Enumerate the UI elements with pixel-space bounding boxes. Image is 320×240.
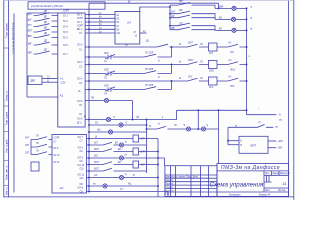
row E bus dot [88, 138, 90, 140]
svg-text:АО 1: АО 1 [77, 14, 83, 17]
ORT left feed vertical [227, 127, 229, 144]
drop vertical to lamp web [197, 110, 199, 129]
rung 1 jog link [171, 47, 173, 57]
svg-text:ОО 4: ОО 4 [77, 79, 83, 81]
svg-text:ЅУ 1: ЅУ 1 [63, 15, 69, 17]
A3 output stub [140, 32, 147, 34]
rung 3 lower wire [85, 87, 171, 92]
rung 1 junction dots [88, 46, 90, 48]
contact SQ4 [34, 29, 58, 32]
A1 stub row 2 to A3 [85, 17, 115, 19]
lamp wire HL2 [215, 18, 247, 20]
svg-text:ЅУ 5: ЅУ 5 [63, 37, 69, 39]
row G wire [87, 149, 159, 152]
wire DVP pin 12 [42, 77, 58, 79]
lamp HL4 [104, 98, 108, 102]
svg-text:ВПГ: ВПГ [28, 31, 33, 33]
auxiliary box ZV [31, 162, 39, 171]
svg-text:А1: А1 [59, 94, 64, 98]
row M bus dot [88, 191, 90, 193]
A1 stub row 3 to A3 [85, 21, 115, 23]
lamp HL5 [106, 117, 110, 121]
rung 3 upper wire [85, 78, 246, 81]
svg-text:Ут: Ут [158, 77, 160, 79]
row K lamp [119, 175, 123, 179]
rung 3 relay coil K3 [209, 77, 218, 85]
svg-text:ОО 2: ОО 2 [77, 45, 83, 47]
row F wire [87, 142, 147, 145]
svg-text:ЗЗТ: ЗЗТ [25, 152, 30, 154]
branch contact wire 5 [170, 27, 215, 30]
svg-text:Ш: Ш [95, 136, 97, 138]
row I bus dot [88, 164, 90, 166]
svg-text:ЗУП: ЗУП [141, 152, 146, 154]
lamp HL8 [201, 127, 205, 131]
A1 stub row 6 to A3 [85, 32, 115, 34]
contact SQ5 [34, 35, 58, 38]
svg-text:кт: кт [158, 123, 160, 125]
svg-text:ОО 3: ОО 3 [77, 62, 83, 64]
row L lamp [103, 184, 107, 188]
svg-text:Копировал: Копировал [229, 194, 241, 196]
top horizontal bus [89, 2, 219, 4]
svg-text:ЗУТ: ЗУТ [141, 165, 146, 167]
svg-text:ЗЮТ: ЗЮТ [94, 149, 100, 151]
pilot branch bus vertical [169, 5, 171, 30]
svg-text:ЅУ 6: ЅУ 6 [63, 45, 69, 47]
svg-text:СОРТ: СОРТ [77, 26, 84, 28]
svg-text:НВГ: НВГ [28, 53, 33, 55]
drop vertical bottom right [167, 192, 169, 197]
A2 input contact row 1 [31, 137, 52, 140]
svg-text:НЦ: НЦ [128, 183, 132, 185]
row I relay coil [133, 161, 139, 168]
svg-text:ЗЮС: ЗЮС [209, 71, 215, 73]
svg-text:ДП: ДП [44, 33, 48, 35]
svg-text:Масса: Масса [273, 173, 280, 175]
row H wire [87, 157, 165, 159]
controller block A2 [52, 135, 87, 194]
lamp HL7 [186, 127, 190, 131]
lamp HL6 [119, 123, 123, 127]
junction dots on bus at A3 stub rows [88, 14, 90, 16]
title block left grid verticals [171, 166, 209, 197]
junction dots on pilot branch bus [169, 6, 171, 8]
svg-text:Н.контр.: Н.контр. [165, 190, 174, 192]
row G relay coil [133, 148, 139, 155]
branch contact wire 1 [170, 3, 215, 9]
lamp row D wire [89, 131, 147, 133]
svg-text:УП ЗОР: УП ЗОР [145, 52, 154, 54]
svg-text:Справ. №: Справ. № [6, 90, 9, 101]
input contact group enclosure box [27, 13, 58, 97]
svg-text:ЅУ 7: ЅУ 7 [63, 54, 69, 56]
svg-text:Лит.: Лит. [265, 173, 270, 175]
A3 top feed wire [140, 7, 170, 12]
A2 input contact row 3 [31, 152, 52, 155]
svg-text:Ы: Ы [179, 44, 181, 46]
rung 2 relay coil K2 [209, 61, 218, 69]
branch contact wire 4 [170, 23, 215, 30]
svg-text:ЅУ 5: ЅУ 5 [63, 32, 69, 34]
svg-text:ЅУ 9: ЅУ 9 [54, 148, 60, 150]
svg-text:А2: А2 [59, 186, 64, 190]
sheet frame right border [289, 1, 294, 200]
svg-text:Листов: Листов [278, 190, 286, 192]
sheet frame top border [4, 0, 294, 2]
ORT right pin 2 [268, 147, 276, 149]
right vertical lamp bus [246, 8, 248, 114]
row M wire [87, 191, 169, 193]
svg-text:ЅУ 4: ЅУ 4 [63, 26, 69, 28]
rung 1 relay coil K1 [209, 43, 218, 51]
svg-text:Лист: Лист [265, 190, 270, 192]
sheet frame left margin lines [4, 1, 9, 198]
contact SQ3 [34, 24, 58, 27]
collector step from row B [176, 110, 178, 119]
A1 stub row 5 to A3 [85, 28, 115, 30]
title block right section [217, 163, 289, 196]
svg-text:к устройству ЗМ ЩУ(-)УВ конт.: к устройству ЗМ ЩУ(-)УВ конт. [12, 22, 15, 54]
svg-text:Перв. примен.: Перв. примен. [7, 22, 9, 37]
rung 3 jog link [171, 81, 173, 90]
A2 input contact row 2 [31, 144, 52, 147]
top bus drop to lamp row [218, 3, 220, 8]
signal lamp HL2 [231, 17, 235, 21]
svg-text:ЅЧТ: ЅЧТ [25, 137, 30, 139]
svg-text:ЅУ 3: ЅУ 3 [77, 22, 83, 24]
contact SQ7 [34, 51, 58, 54]
svg-text:ДП: ДП [44, 11, 48, 13]
svg-text:ВО 1: ВО 1 [77, 29, 83, 31]
collector wire to right bus [177, 109, 247, 111]
wire DVP pin 11 [42, 81, 58, 83]
margin divider ticks [4, 48, 9, 186]
collector vertical V1 [146, 120, 148, 174]
svg-text:ОО 7: ОО 7 [78, 137, 84, 139]
svg-text:ОО 5: ОО 5 [77, 101, 83, 103]
rung 1 lower wire [85, 54, 171, 59]
svg-text:Схема управления: Схема управления [210, 182, 264, 189]
svg-text:А3: А3 [126, 21, 131, 25]
ORT right pin 1 [268, 140, 276, 142]
svg-text:СОРТ: СОРТ [54, 138, 61, 140]
A2 input feed vertical [30, 140, 32, 155]
svg-text:Изм Лист № докум. Подп. Дата: Изм Лист № докум. Подп. Дата [165, 175, 198, 178]
svg-text:ОО 9: ОО 9 [78, 158, 84, 160]
svg-text:СОРТ: СОРТ [77, 18, 84, 20]
svg-text:Провер.: Провер. [165, 183, 174, 185]
row E relay coil [133, 135, 139, 142]
rung 2 jog link [171, 65, 173, 74]
svg-text:ЗУС: ЗУС [188, 76, 193, 78]
svg-text:Масштаб: Масштаб [280, 173, 290, 175]
svg-text:Т.контр.: Т.контр. [165, 187, 174, 189]
svg-text:ОО В: ОО В [78, 188, 84, 190]
row F bus dot [88, 144, 90, 146]
svg-text:Ут: Ут [158, 60, 160, 62]
branch contact wire 2 [170, 11, 215, 19]
svg-text:ЗОР: ЗОР [104, 53, 109, 55]
svg-text:ДП: ДП [44, 41, 48, 43]
row L wire [87, 185, 159, 187]
title block designation cell divider [217, 170, 289, 172]
svg-text:ЗЗТ: ЗЗТ [25, 145, 30, 147]
row K wire [87, 177, 159, 179]
signal lamp HL1 [232, 6, 236, 10]
svg-text:ЛЮС: ЛЮС [230, 70, 236, 72]
top designation box [28, 2, 105, 9]
row F lamp [119, 143, 123, 147]
svg-text:ОО 11: ОО 11 [78, 175, 85, 177]
interposing block ORT [239, 136, 268, 153]
svg-text:Подп. и дата: Подп. и дата [7, 111, 9, 125]
neutral wire N [247, 114, 277, 116]
rung 1 upper wire [85, 44, 246, 47]
rung 2 junction dots [88, 64, 90, 66]
row J bus dot [88, 170, 90, 172]
svg-text:ЗЫ: ЗЫ [97, 129, 100, 131]
svg-text:УП ЗОР: УП ЗОР [145, 69, 154, 71]
svg-text:ДП: ДП [44, 50, 48, 52]
svg-text:ЗКТ: ЗКТ [94, 142, 99, 144]
svg-text:-26V: -26V [278, 148, 283, 150]
svg-text:ЗОР: ЗОР [104, 69, 109, 71]
title block lit-mass-scale horizontal [264, 174, 289, 176]
title block name cell divider [263, 171, 265, 192]
svg-text:ДП: ДП [44, 17, 48, 19]
row K bus dot [88, 177, 90, 179]
ORT left pin 2 [228, 144, 239, 146]
collector vertical V2 [157, 139, 159, 197]
external connection bus line [13, 14, 15, 193]
A1 stub row 1 to A3 [85, 14, 115, 16]
svg-text:СОРТ: СОРТ [63, 11, 70, 13]
row H bus dot [88, 157, 90, 159]
svg-text:Взам. инв. №: Взам. инв. № [6, 165, 9, 180]
svg-text:Ы: Ы [179, 78, 181, 80]
V2 junction dots [157, 151, 159, 153]
junction dots collector [197, 109, 199, 111]
svg-text:ДГ 6: ДГ 6 [77, 123, 82, 125]
ORT left pin 1 [228, 140, 239, 142]
svg-text:ЅУ 11: ЅУ 11 [54, 162, 61, 164]
svg-text:ЗУТ: ЗУТ [209, 53, 214, 55]
svg-text:ОО 10: ОО 10 [78, 165, 85, 167]
contact SQ2 [34, 18, 58, 21]
title block left grid horizontals [165, 175, 217, 192]
lamp row A wire [85, 100, 132, 102]
row A drop vertical [132, 101, 134, 120]
svg-text:11: 11 [283, 181, 287, 186]
title block left section [165, 166, 217, 197]
signal lamp HL3 [232, 28, 236, 32]
logic block A3 [115, 12, 140, 45]
controller block A1 [58, 13, 85, 127]
svg-text:ДП: ДП [44, 28, 48, 30]
svg-text:ЗУС: ЗУС [209, 87, 214, 89]
sheet frame bottom border [4, 196, 294, 198]
svg-text:ЗЮТ: ЗЮТ [94, 162, 100, 164]
main vertical supply bus [88, 3, 90, 191]
rung 2 upper wire [85, 62, 246, 65]
row H lamp [119, 156, 123, 160]
lamp HL9 [108, 130, 112, 134]
svg-text:ЗЮС: ЗЮС [188, 60, 194, 62]
svg-text:ЗЮТ: ЗЮТ [94, 168, 100, 170]
title block lit sub cells [264, 175, 272, 182]
junction dots on right bus [246, 18, 248, 20]
row E wire [87, 138, 159, 140]
svg-text:ЗОР: ЗОР [104, 85, 109, 87]
row J wire [87, 168, 147, 171]
svg-text:М: М [84, 117, 86, 119]
title block lit-mass-scale verticals [272, 171, 280, 175]
row L bus dot [88, 185, 90, 187]
svg-text:ЅУ 2: ЅУ 2 [63, 21, 69, 23]
row I wire [87, 162, 159, 165]
svg-text:КГУ: КГУ [28, 25, 33, 27]
lamp row C wire [89, 124, 147, 126]
svg-text:ОО 6: ОО 6 [77, 119, 83, 121]
lamp row C2 wire [147, 126, 219, 129]
svg-text:ВЗР: ВЗР [219, 7, 224, 9]
contact SQ1 [34, 13, 58, 16]
title block list row divider [217, 188, 289, 192]
sensor box DVP [28, 76, 42, 85]
svg-text:ПМЗ-3м на Данфоссе: ПМЗ-3м на Данфоссе [221, 165, 280, 171]
junction dots lamp web [132, 119, 134, 121]
svg-text:ЕЛ: ЕЛ [115, 142, 119, 144]
svg-text:+26V: +26V [278, 141, 284, 143]
branch contact wire 3 [170, 15, 215, 19]
svg-text:Ы: Ы [179, 62, 181, 64]
svg-text:устройство 3м ЩУ-(-)УВ конт.: устройство 3м ЩУ-(-)УВ конт. [31, 5, 64, 8]
relay contact row LT [228, 125, 273, 128]
svg-text:УП ЗОР: УП ЗОР [145, 85, 154, 87]
svg-text:Формат А4: Формат А4 [259, 193, 271, 196]
lamp row B wire [85, 119, 177, 121]
lamp wire HL1 [215, 7, 247, 9]
svg-text:ДВП: ДВП [31, 81, 36, 83]
svg-text:Инв. №: Инв. № [6, 187, 9, 195]
svg-text:Инв. № дубл.: Инв. № дубл. [6, 138, 9, 152]
svg-text:Ф: Ф [133, 174, 135, 177]
drop to title block corner [164, 158, 166, 166]
svg-text:СВ: СВ [80, 191, 84, 193]
svg-text:кк: кк [235, 125, 237, 127]
lamp wire HL3 [215, 29, 247, 31]
contact SQ6 [34, 42, 58, 45]
svg-text:Разраб.: Разраб. [165, 180, 173, 182]
rung 3 junction dots [88, 80, 90, 82]
svg-text:ЛУС: ЛУС [230, 86, 235, 88]
svg-text:ЗУТ: ЗУТ [141, 139, 146, 141]
junction dot lamp row1 [218, 7, 220, 9]
long vertical to title block [218, 110, 220, 163]
svg-text:ЗЮТ: ЗЮТ [188, 42, 194, 44]
rung 2 lower wire [85, 71, 171, 76]
svg-text:ОО 8: ОО 8 [78, 147, 84, 149]
svg-text:Утв.: Утв. [165, 194, 170, 196]
svg-text:+12V: +12V [60, 83, 66, 85]
svg-text:ЅУ 10: ЅУ 10 [54, 155, 61, 157]
A1 stub row 4 to A3 [85, 25, 115, 27]
row G bus dot [88, 151, 90, 153]
svg-text:СВ: СВ [80, 184, 84, 186]
svg-text:ДП: ДП [44, 22, 48, 24]
